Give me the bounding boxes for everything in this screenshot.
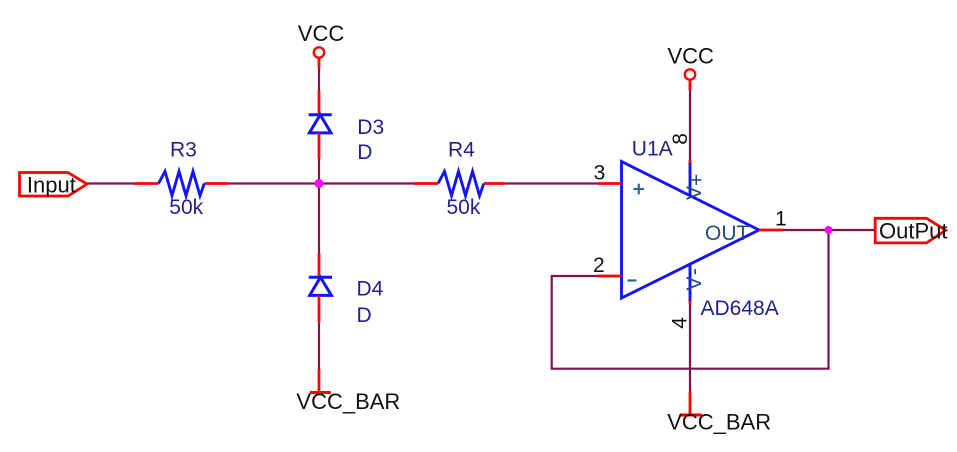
svg-text:D4: D4 (357, 277, 384, 300)
wire: feedback bottom horizontal (552, 368, 830, 370)
svg-text:VCC: VCC (668, 44, 715, 69)
port OutPut (875, 218, 947, 243)
svg-text:VCC_BAR: VCC_BAR (296, 389, 400, 414)
junction A (node at R3/R4/diodes) (315, 179, 324, 188)
wire: R3 to junction A (228, 182, 319, 184)
wire: input port to R3 (86, 182, 135, 184)
pin 1 (output) (759, 229, 783, 232)
svg-text:D3: D3 (357, 116, 384, 139)
power VCC (right, above op-amp) (668, 44, 715, 91)
svg-text:OutPut: OutPut (879, 218, 947, 243)
svg-text:AD648A: AD648A (701, 297, 779, 320)
port Input (20, 173, 88, 198)
wire: op-amp output to OutPut port (783, 229, 875, 231)
wire: junction A down to D4 (318, 184, 320, 254)
resistor R4 (414, 139, 505, 219)
power VCC_BAR (right, below op-amp) (667, 392, 771, 435)
svg-text:V-: V- (683, 268, 706, 290)
svg-text:D: D (357, 141, 372, 164)
wire: feedback left vertical (551, 276, 553, 370)
svg-text:2: 2 (593, 254, 605, 277)
svg-text:3: 3 (594, 162, 606, 185)
resistor R3 (135, 139, 229, 219)
svg-text:Input: Input (27, 173, 76, 198)
pin 2 (inverting input) (597, 275, 622, 278)
diode D4 (309, 253, 384, 327)
wire: VCC symbol down to op-amp V+ pin (689, 90, 691, 160)
svg-text:OUT: OUT (705, 222, 750, 245)
svg-text:R3: R3 (170, 139, 197, 162)
svg-text:U1A: U1A (632, 138, 673, 161)
diode D3 (309, 91, 385, 164)
power VCC_BAR (left) (296, 369, 400, 414)
svg-text:1: 1 (775, 207, 787, 230)
svg-text:V+: V+ (683, 174, 709, 200)
pin 3 (non-inverting input) (598, 182, 622, 185)
wire: feedback right vertical from output junction B (827, 230, 829, 369)
wire: R4 to op-amp pin 3 (505, 182, 598, 184)
wire: junction A to R4 (319, 182, 414, 184)
wire: VCC symbol down to D3 (318, 69, 320, 92)
svg-text:50k: 50k (169, 196, 203, 219)
svg-text:VCC_BAR: VCC_BAR (667, 409, 771, 434)
svg-text:4: 4 (669, 317, 692, 329)
wire: op-amp V- pin down to VCC_BAR, crossing feedback wire (689, 305, 691, 394)
svg-text:50k: 50k (447, 196, 481, 219)
op-amp U1A (593, 133, 787, 329)
wire: D4 down to VCC_BAR (318, 323, 320, 369)
wire: D3 to junction A (318, 159, 320, 184)
svg-text:VCC: VCC (298, 21, 345, 46)
power VCC (left) (298, 21, 345, 69)
svg-text:D: D (357, 304, 372, 327)
junction B (output node) (825, 226, 833, 234)
svg-text:R4: R4 (448, 139, 475, 162)
wire: feedback top to op-amp pin 2 (551, 275, 597, 277)
pin 8 (V+ power pin) (689, 160, 692, 164)
svg-text:8: 8 (669, 133, 692, 145)
pin 4 (V- power pin) (689, 264, 692, 301)
